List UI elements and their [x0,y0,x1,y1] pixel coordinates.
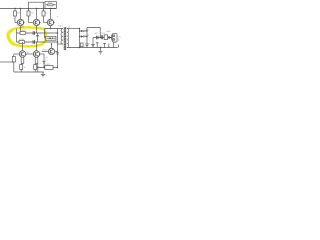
svg-text:+: + [41,62,43,64]
wire: stub [108,43,110,47]
wire: Q4 collector up [22,42,24,51]
wire: primary bottom tap [58,43,63,45]
wire: Q6 emitter to bus [55,44,59,68]
svg-text:T601: T601 [58,25,64,27]
capacitor C3 [33,40,34,44]
capacitor C2 (between rows) [36,33,41,42]
resistor R8 [20,65,26,73]
transistor Q4 [19,51,26,57]
svg-text:1u: 1u [45,60,47,62]
capacitor C9 (left of rail) [80,43,85,47]
svg-text:1k2: 1k2 [30,13,34,15]
connector P1 (output) [112,34,121,48]
svg-text:1k: 1k [24,67,26,69]
wire: node A to transformer top [45,28,63,30]
transistor Q1 [17,19,24,29]
resistor R4 [20,30,26,34]
wire: mid rail [93,37,113,39]
capacitor C7 (series) [101,35,102,39]
wire: left input [0,61,14,63]
wire: secondary bottom rail [67,47,118,49]
capacitor C8 stub [96,43,99,48]
svg-text:CN: CN [118,36,121,38]
wire: Q5 emitter legs [35,57,38,65]
wire: Q4 emitter legs [21,57,24,65]
diode D1 [79,30,87,32]
wire: row 2 [17,41,58,43]
svg-text:+: + [84,45,85,47]
wire: Q5 output leg [40,54,48,68]
wire: Q4 base [14,53,19,55]
transistor Q6 [48,48,54,54]
diode D4 [109,35,112,41]
wire: bottom rail [14,71,44,73]
wire: left branch drop [44,29,46,39]
svg-text:F601: F601 [48,3,52,5]
wire: top right rail [87,28,100,38]
svg-text:C607: C607 [94,33,98,35]
transistor Q5 [33,51,40,57]
wire: load leg [103,44,106,48]
svg-text:+: + [39,36,41,38]
resistor R5 [19,39,25,43]
wire: emitter Q2 [36,26,38,33]
wire: Q6 base [42,50,49,52]
svg-text:1k2: 1k2 [17,13,21,15]
resistor R10 [34,65,41,73]
wire: emitter Q3 [50,26,51,29]
diode D3 (boxed) [46,36,57,40]
resistor R11 (boxed) [40,62,53,69]
svg-text:D605: D605 [106,31,110,33]
wire: +V top rail [0,8,57,10]
node: bus-feedback junction [57,67,58,68]
diode D2 [79,35,87,37]
wire: collector Q1 [20,8,21,19]
ground (right) [99,47,103,54]
wire: emitter Q1 [20,26,22,33]
capacitor C5 [91,38,94,48]
wire: output return tick [118,45,120,48]
transistor Q3 [47,19,54,25]
transformer T601 [58,25,70,50]
wire: top feedback rail [29,2,46,8]
capacitor C6 [97,36,98,40]
ground [41,72,45,77]
svg-text:1k: 1k [45,13,48,15]
svg-text:a: a [57,16,59,18]
capacitor C1 [33,31,34,35]
highlight annotation yellow marker loop [8,27,46,46]
wire: secondary right bus [79,28,80,48]
svg-text:D601: D601 [85,29,90,31]
wire: secondary top [67,28,80,30]
svg-text:D602: D602 [85,35,90,37]
wire: Q6 collector up [51,43,52,48]
wire: Q5 right leg [37,64,38,73]
wire: row 1 [17,32,58,34]
wire: rectified node [86,28,87,44]
svg-text:60: 60 [118,40,120,42]
wire: collector Q2 [36,8,37,19]
transistor Q2 [33,19,40,25]
capacitor C4 [85,43,91,47]
resistor R3 (base, Q3) [42,2,48,22]
fuse F1 (top-right box) [45,1,57,8]
svg-text:+: + [89,43,91,45]
resistor R12 (boxed) [104,35,107,40]
resistor R7 [12,54,15,72]
resistor R1 (base, Q1) [14,8,21,23]
resistor R2 (base, Q2) [27,8,34,23]
wire: Q5 collector up [36,42,38,51]
wire: primary bus [57,29,58,45]
wire: collector Q3 [50,8,51,19]
wire: Q4-Q5 link [26,52,34,54]
wire: feedback bottom [38,67,58,69]
wire: left link [16,29,18,42]
svg-text:R612: R612 [101,33,105,35]
